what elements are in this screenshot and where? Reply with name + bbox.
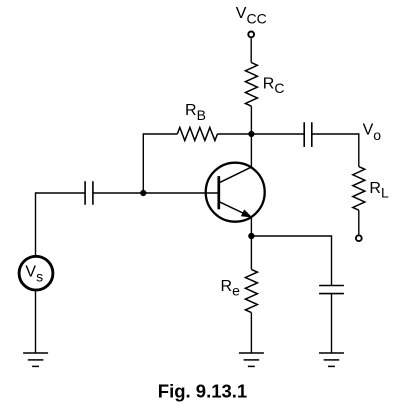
wire collector node to output cap xyxy=(251,133,304,135)
wire output cap to Vo corner xyxy=(312,133,359,135)
resistor Re xyxy=(245,269,257,312)
transistor Q1 emitter lead xyxy=(220,202,252,217)
wire Re to ground xyxy=(250,313,252,353)
wire base node to transistor base xyxy=(143,192,217,194)
wire emitter node to Re xyxy=(250,236,252,269)
svg-text:VCC: VCC xyxy=(236,5,267,27)
node emitter junction xyxy=(249,233,255,239)
node collector junction xyxy=(249,131,255,137)
svg-text:Vo: Vo xyxy=(363,122,382,143)
wire emitter node to bypass cap xyxy=(251,235,331,237)
svg-text:Fig. 9.13.1: Fig. 9.13.1 xyxy=(158,381,247,402)
resistor RC xyxy=(245,63,257,107)
transistor Q1 base bar xyxy=(217,176,220,209)
source Vs xyxy=(19,256,53,290)
svg-text:RC: RC xyxy=(263,76,285,97)
wire RB left lead xyxy=(143,133,177,135)
ground under Re xyxy=(239,353,264,366)
capacitor input coupling xyxy=(85,181,93,205)
wire VCC to RC xyxy=(250,38,252,62)
wire collector node to transistor xyxy=(250,134,252,167)
wire RC to collector node xyxy=(250,106,252,134)
svg-text:RB: RB xyxy=(185,102,206,123)
transistor Q1 collector lead xyxy=(220,167,252,183)
svg-text:RL: RL xyxy=(369,180,389,201)
wire RL to output terminal xyxy=(358,210,360,234)
ground under bypass cap xyxy=(319,353,344,366)
transistor Q1 body circle xyxy=(206,163,265,222)
svg-text:Vs: Vs xyxy=(25,264,43,285)
terminal output open circle xyxy=(356,235,362,241)
terminal VCC xyxy=(248,32,254,38)
ground under Vs xyxy=(23,353,48,366)
wire Vo corner down to RL xyxy=(358,133,360,166)
svg-text:Re: Re xyxy=(221,278,241,298)
wire Vs to input cap xyxy=(36,192,86,194)
wire bypass cap to ground xyxy=(331,294,333,353)
wire down to Vs xyxy=(35,192,37,255)
wire input cap to base node xyxy=(93,192,143,194)
capacitor bypass xyxy=(319,286,344,294)
wire RB right lead to collector node xyxy=(217,133,251,135)
wire RB left vertical down to base node xyxy=(142,133,144,193)
transistor Q1 emitter arrowhead xyxy=(242,210,252,217)
wire Vs to ground xyxy=(35,291,37,353)
capacitor output coupling xyxy=(304,122,312,147)
wire transistor emitter down to emitter node xyxy=(250,217,252,236)
resistor RB xyxy=(177,128,217,141)
node base junction xyxy=(141,190,147,196)
wire down to bypass cap xyxy=(331,235,333,285)
resistor RL xyxy=(353,167,365,211)
